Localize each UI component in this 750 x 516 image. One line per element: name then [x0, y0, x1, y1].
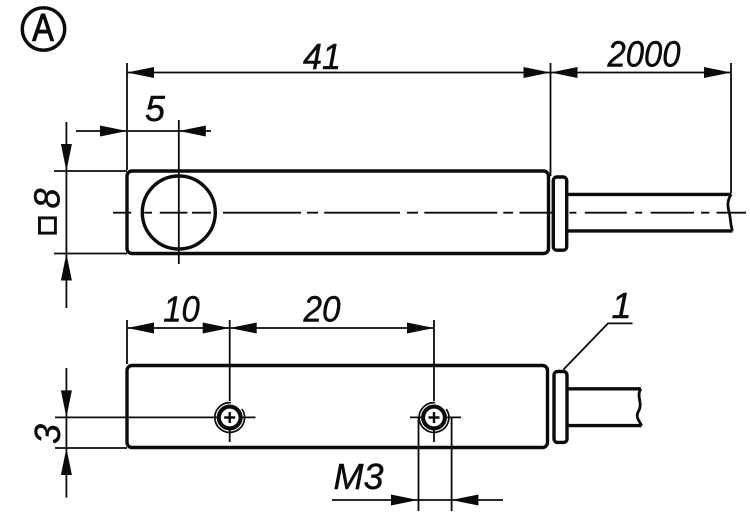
bottom view: hole 1 (M3) inner circle — [219, 407, 241, 429]
dimension 41 — [127, 36, 551, 78]
extension line bottom body left — [126, 320, 128, 364]
bottom view: sensor body — [127, 366, 548, 448]
bottom view: cable collar — [554, 372, 567, 443]
svg-text:8: 8 — [27, 188, 68, 208]
dimension 3: dimension line with outside arrows — [61, 368, 72, 498]
extension line hole 2 center — [433, 320, 435, 401]
extension line at cable end — [730, 63, 732, 193]
dimension square-8: extension lines — [54, 170, 127, 172]
svg-text:20: 20 — [303, 289, 341, 330]
dimension 3: extension lines — [55, 416, 221, 418]
svg-text:41: 41 — [303, 36, 341, 77]
top view: horizontal center line — [113, 212, 746, 214]
svg-text:A: A — [32, 7, 54, 50]
dimension 10 — [127, 289, 230, 334]
dimension 5 — [76, 88, 211, 137]
svg-text:1: 1 — [611, 285, 631, 326]
top view: cable collar — [553, 177, 566, 250]
bottom view: hole 2 (M3) inner circle — [423, 407, 445, 429]
dimension 20 — [230, 289, 434, 334]
extension line hole 1 center — [229, 320, 231, 401]
top view: circle vertical center line — [178, 120, 180, 264]
view label A (circled) — [22, 7, 64, 50]
extension line at body right / collar — [550, 63, 552, 176]
dimension square-8: dimension line with outside arrows — [61, 122, 72, 308]
svg-text:5: 5 — [145, 88, 166, 129]
dimension M3: extension lines — [419, 418, 452, 512]
top view: sensing face circle — [142, 176, 215, 249]
dimension M3: dimension line with outside arrows — [332, 456, 503, 506]
svg-text:M3: M3 — [333, 456, 383, 497]
bottom view: hole 2 center cross — [429, 412, 440, 423]
dimension 2000 — [551, 34, 732, 79]
bottom view: cable with break — [567, 389, 642, 426]
svg-text:3: 3 — [27, 424, 68, 444]
svg-text:2000: 2000 — [607, 34, 681, 75]
svg-text:10: 10 — [163, 289, 200, 330]
bottom view: hole 1 center cross — [224, 412, 235, 423]
dimension square-8: label (square symbol + rotated 8) — [27, 188, 68, 233]
top view: cable — [567, 194, 733, 231]
bottom view: hole 2 thread arc — [419, 403, 449, 433]
extension line at body left — [126, 63, 128, 170]
bottom view: hole 1 cross hair — [230, 417, 256, 442]
top view: sensor body — [127, 171, 549, 254]
leader line for item 1 — [564, 323, 633, 369]
bottom view: hole 1 thread arc — [215, 403, 245, 433]
bottom view: hole 2 cross hair — [410, 417, 461, 442]
